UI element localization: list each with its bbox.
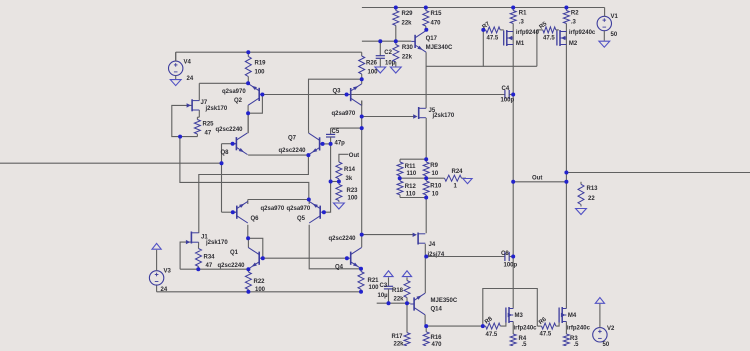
wire Out net stub — [339, 154, 349, 160]
label J1 — [201, 235, 228, 247]
resistor R5 — [537, 27, 556, 33]
svg-text:100p: 100p — [504, 263, 518, 269]
svg-text:C3: C3 — [380, 283, 388, 289]
svg-text:irfp9240: irfp9240 — [516, 30, 540, 36]
label R23 — [347, 188, 359, 202]
ground V1 — [599, 41, 610, 47]
label R26 — [366, 61, 378, 76]
svg-text:J4: J4 — [429, 242, 436, 248]
label R21 — [368, 278, 380, 291]
wire J5 gate — [362, 116, 415, 118]
wire Out rail — [513, 181, 566, 183]
svg-text:Q1: Q1 — [230, 250, 239, 256]
net label Out stub — [349, 153, 359, 159]
wire input net — [0, 144, 222, 213]
svg-text:M4: M4 — [568, 313, 577, 319]
svg-text:24: 24 — [161, 287, 168, 293]
voltage source V3 — [149, 250, 163, 285]
label R2 — [571, 11, 579, 26]
capacitor C2 — [376, 41, 385, 66]
resistor R8 — [483, 323, 501, 329]
label R18 — [392, 288, 404, 303]
transistor Q1 — [248, 247, 263, 269]
wire top positive rail — [362, 7, 605, 9]
label V4 — [184, 60, 194, 83]
wire V4 rail — [176, 52, 362, 61]
svg-text:100p: 100p — [501, 98, 515, 104]
transistor Q3 — [347, 79, 362, 105]
label Q2 — [222, 89, 246, 104]
svg-text:110: 110 — [406, 192, 416, 198]
transistor Q17 — [411, 30, 426, 52]
jfet J7 — [187, 99, 200, 111]
power flag V3 — [152, 243, 161, 249]
power flag R18 — [402, 271, 411, 277]
label R19 — [255, 61, 267, 76]
label Q4 — [329, 236, 357, 271]
svg-text:470: 470 — [431, 21, 442, 27]
label C5 — [332, 129, 346, 147]
label R12 — [405, 184, 417, 198]
svg-text:R9: R9 — [430, 163, 438, 169]
wire R5 to M2 gate — [556, 29, 559, 31]
label Q7 — [279, 136, 307, 155]
svg-text:q2sc2240: q2sc2240 — [216, 127, 244, 133]
resistor R16 — [423, 326, 429, 346]
svg-text:irfp9240c: irfp9240c — [569, 30, 596, 36]
svg-text:110: 110 — [407, 171, 417, 177]
svg-text:Q5: Q5 — [297, 216, 306, 222]
label M2 — [569, 30, 596, 47]
resistor R12 — [397, 178, 403, 197]
svg-text:100: 100 — [348, 196, 359, 202]
resistor R11 — [397, 159, 403, 178]
svg-text:j2sk170: j2sk170 — [205, 106, 228, 112]
svg-text:M2: M2 — [569, 41, 578, 47]
resistor R25 — [194, 117, 200, 136]
label R11 — [405, 164, 417, 177]
label V3 — [161, 269, 172, 294]
wire Q2 base collector tie — [248, 95, 262, 114]
wire negative rail V3 — [157, 285, 361, 292]
svg-text:100: 100 — [255, 70, 266, 76]
svg-text:irfp240c: irfp240c — [567, 326, 591, 332]
wire R8 to M3 gate — [500, 323, 506, 327]
power flag C3 — [384, 271, 393, 277]
resistor R7 — [483, 27, 500, 33]
ground V4 — [170, 80, 181, 86]
svg-text:C2: C2 — [384, 50, 392, 56]
svg-text:q2sa970: q2sa970 — [222, 89, 246, 95]
svg-text:C8: C8 — [501, 251, 509, 257]
wire diff pair emitters — [248, 200, 309, 205]
svg-text:Q6: Q6 — [251, 216, 260, 222]
resistor R9 — [423, 159, 429, 178]
resistor R26 — [359, 52, 365, 79]
label R9 — [430, 163, 439, 177]
svg-text:R19: R19 — [255, 61, 267, 67]
svg-text:22k: 22k — [394, 342, 405, 347]
capacitor C4 — [505, 90, 513, 99]
svg-text:R34: R34 — [204, 255, 216, 261]
wire J1 source lead — [198, 242, 200, 245]
svg-text:R11: R11 — [405, 164, 416, 170]
svg-text:Q3: Q3 — [333, 89, 342, 95]
svg-text:V4: V4 — [184, 60, 192, 66]
wire resistor block mid — [400, 177, 444, 179]
svg-text:Out: Out — [532, 176, 542, 182]
wire Q8 base — [222, 143, 237, 145]
power flag V2 — [595, 298, 604, 304]
resistor R21 — [358, 269, 364, 292]
svg-text:10: 10 — [432, 171, 439, 177]
svg-text:100: 100 — [255, 287, 266, 293]
svg-text:q2sc2240: q2sc2240 — [218, 263, 246, 269]
svg-text:irfp240c: irfp240c — [514, 326, 538, 332]
svg-text:47: 47 — [206, 263, 213, 269]
svg-text:47.5: 47.5 — [486, 332, 498, 338]
ground C2 — [375, 67, 386, 73]
wire J7 source lead — [197, 110, 199, 117]
wire Q1 base to Q4 base — [263, 257, 347, 259]
resistor R1 — [510, 8, 516, 27]
svg-text:.3: .3 — [519, 20, 525, 26]
svg-text:R2: R2 — [571, 11, 579, 17]
svg-text:j2sj74: j2sj74 — [427, 252, 445, 258]
label Q3 — [332, 89, 356, 118]
label R29 — [402, 11, 414, 27]
label R30 — [402, 45, 414, 61]
mosfet M4 — [559, 307, 566, 323]
jfet J4 — [413, 233, 426, 245]
transistor Q5 — [309, 201, 324, 223]
wire Out to edge — [566, 172, 750, 174]
label R16 — [431, 335, 443, 348]
label Q17 — [426, 36, 453, 51]
wire M2 output vertical — [565, 26, 567, 173]
svg-text:R29: R29 — [402, 11, 414, 17]
svg-text:j2sk170: j2sk170 — [432, 113, 455, 119]
resistor R22 — [245, 269, 251, 292]
ground R13 — [576, 209, 587, 215]
svg-text:R17: R17 — [392, 334, 404, 340]
resistor R19 — [245, 52, 251, 83]
svg-text:Q2: Q2 — [234, 98, 243, 104]
label R6 — [538, 316, 552, 337]
label R5 — [539, 21, 556, 42]
resistor R6 — [537, 323, 556, 329]
resistor R13 — [578, 182, 584, 207]
transistor Q6 — [233, 201, 248, 223]
wire Q8 emitter to Q7 emitter — [248, 154, 308, 156]
label Q8 — [216, 127, 244, 156]
resistor R34 — [196, 245, 202, 269]
svg-text:100: 100 — [369, 285, 380, 291]
label R10 — [430, 184, 442, 198]
wire resistor block bottom — [400, 197, 426, 199]
jfet J1 — [186, 232, 199, 245]
resistor R29 — [393, 8, 399, 42]
svg-text:q2sa970: q2sa970 — [332, 111, 356, 117]
wire Q7 base — [320, 143, 331, 145]
label R14 — [344, 167, 356, 182]
wire J4 source to Q14 emitter — [424, 244, 426, 293]
label Q1 — [218, 250, 246, 269]
wire Q3 collector vertical — [361, 101, 363, 248]
svg-text:.5: .5 — [522, 342, 528, 346]
label V2 — [603, 326, 616, 348]
svg-text:MJE340C: MJE340C — [426, 45, 453, 51]
label R1 — [519, 11, 527, 26]
resistor R18 — [404, 277, 410, 303]
label M3 — [514, 313, 538, 332]
svg-text:22k: 22k — [394, 297, 405, 303]
mosfet M3 — [506, 307, 513, 323]
wire M4 drain vertical — [565, 173, 567, 309]
voltage source V2 — [593, 304, 607, 342]
svg-text:10: 10 — [432, 192, 439, 198]
wire Q5 collector to R21 top — [309, 225, 361, 269]
svg-text:47.5: 47.5 — [487, 36, 499, 42]
svg-text:R16: R16 — [431, 335, 443, 341]
label C3 — [378, 283, 389, 299]
label R4 — [519, 336, 528, 348]
resistor R17 — [404, 303, 410, 346]
capacitor C8 — [426, 252, 513, 261]
mosfet M2 — [557, 30, 567, 46]
label C4 — [501, 86, 515, 104]
wire Q6 collector to Q1 collector — [248, 225, 263, 258]
wire M3 source to R4 — [512, 322, 514, 335]
ground R30 — [390, 67, 401, 73]
svg-text:47.5: 47.5 — [540, 332, 552, 338]
resistor R14 — [336, 161, 342, 182]
label R24 — [452, 169, 464, 190]
ground R23 — [334, 203, 345, 209]
label R3 — [570, 336, 579, 348]
voltage source V4 — [169, 52, 183, 79]
wire M4 source to R3 — [565, 322, 567, 335]
wire J7 gate loop — [172, 105, 198, 136]
svg-text:Q17: Q17 — [426, 36, 438, 42]
label R17 — [392, 334, 405, 348]
svg-text:Q8: Q8 — [221, 150, 230, 156]
svg-text:Q4: Q4 — [335, 265, 344, 271]
svg-text:470: 470 — [432, 342, 443, 346]
transistor Q8 — [233, 113, 249, 155]
resistor R24 — [444, 175, 467, 181]
svg-text:V3: V3 — [164, 269, 172, 275]
svg-text:q2sc2240: q2sc2240 — [279, 148, 307, 154]
wire M1 output vertical — [512, 26, 514, 309]
voltage source V1 — [597, 8, 611, 41]
svg-text:3k: 3k — [346, 176, 353, 182]
wire feedback node vertical — [324, 144, 331, 212]
svg-text:R12: R12 — [405, 184, 417, 190]
svg-text:MJE350C: MJE350C — [431, 298, 458, 304]
label Q5 — [287, 206, 311, 222]
svg-text:R21: R21 — [368, 278, 380, 284]
ground R24 — [463, 179, 472, 184]
wire R34 bottom to Q1 emitter — [180, 268, 248, 270]
svg-text:100: 100 — [368, 70, 379, 76]
label R25 — [203, 122, 215, 137]
wire C5 top tap — [331, 127, 362, 129]
wire R26 bottom to Q7 collector — [309, 79, 362, 130]
svg-text:R15: R15 — [431, 11, 443, 17]
svg-text:R24: R24 — [452, 169, 464, 175]
wire J5 source down — [425, 118, 427, 159]
wire R6 to M4 gate — [556, 323, 559, 327]
resistor R2 — [563, 8, 569, 27]
svg-text:24: 24 — [187, 76, 194, 82]
svg-text:R22: R22 — [254, 279, 266, 285]
svg-text:q2sa970: q2sa970 — [287, 206, 311, 212]
svg-text:j2sk170: j2sk170 — [205, 240, 228, 246]
svg-text:C5: C5 — [332, 129, 340, 135]
svg-text:Out: Out — [349, 153, 359, 159]
svg-text:R14: R14 — [344, 167, 356, 173]
svg-text:47.5: 47.5 — [543, 36, 555, 42]
svg-text:M1: M1 — [516, 41, 525, 47]
resistor R4 — [510, 334, 516, 346]
wire gate bias bus M1 M2 — [426, 30, 537, 66]
label J7 — [201, 100, 228, 112]
transistor Q4 — [347, 247, 362, 269]
label J5 — [429, 108, 455, 119]
wire Q14 collector — [425, 315, 483, 326]
wire J4 drain up — [425, 198, 427, 234]
label R15 — [431, 11, 443, 27]
wire R7 to M1 gate — [500, 29, 504, 31]
label V1 — [611, 14, 619, 38]
svg-text:22k: 22k — [402, 55, 413, 61]
svg-text:V1: V1 — [611, 14, 619, 20]
wire Q17 base bus — [362, 40, 411, 42]
svg-text:R30: R30 — [402, 45, 414, 51]
svg-text:R13: R13 — [587, 186, 599, 192]
svg-text:22: 22 — [588, 196, 595, 202]
label C8 — [501, 251, 518, 269]
svg-text:.3: .3 — [571, 20, 577, 26]
svg-text:R10: R10 — [430, 184, 442, 190]
svg-text:q2sc2240: q2sc2240 — [329, 236, 357, 242]
svg-text:22k: 22k — [402, 21, 413, 27]
svg-text:50: 50 — [603, 342, 610, 346]
svg-text:Q7: Q7 — [288, 136, 297, 142]
label J4 — [427, 242, 445, 258]
label M4 — [567, 313, 591, 332]
wire Q14 base bus — [377, 302, 411, 304]
capacitor C5 — [326, 128, 335, 144]
transistor Q2 — [248, 84, 263, 106]
wire Q6 base — [222, 211, 237, 213]
svg-text:R25: R25 — [203, 122, 215, 128]
wire Q7 emitter to J1 drain — [199, 155, 309, 233]
label C2 — [384, 50, 395, 67]
label R22 — [254, 279, 266, 293]
wire Q2 base bus to C4 — [262, 94, 505, 96]
transistor Q7 — [309, 131, 324, 155]
wire M3 M4 gate box — [483, 289, 538, 327]
label M1 — [516, 30, 540, 47]
wire Q2 collector down to Q8 collector — [247, 105, 249, 133]
label Q14 — [431, 298, 458, 313]
resistor R10 — [423, 178, 429, 197]
svg-text:R23: R23 — [347, 188, 359, 194]
svg-text:M3: M3 — [515, 313, 524, 319]
svg-text:47: 47 — [205, 131, 212, 137]
label R34 — [204, 255, 216, 270]
svg-text:R26: R26 — [366, 61, 378, 67]
svg-text:Q14: Q14 — [431, 307, 443, 313]
resistor R23 — [336, 182, 342, 203]
wire J1 gate loop — [180, 242, 191, 269]
capacitor C3 — [384, 277, 393, 303]
resistor R30 — [393, 41, 399, 66]
svg-text:.5: .5 — [574, 342, 580, 346]
svg-text:V2: V2 — [607, 326, 615, 332]
label R13 — [587, 186, 599, 202]
label R7 — [482, 21, 499, 42]
mosfet M1 — [504, 30, 514, 46]
wire J4 gate — [362, 234, 415, 236]
svg-text:R1: R1 — [519, 11, 527, 17]
svg-text:C4: C4 — [502, 86, 510, 92]
label Q6 — [251, 206, 285, 222]
wire feedback tail — [180, 137, 309, 200]
label R8 — [484, 316, 498, 338]
svg-text:50: 50 — [611, 32, 618, 38]
wire resistor block top — [400, 158, 426, 160]
svg-text:47p: 47p — [335, 141, 346, 147]
resistor R3 — [563, 334, 569, 346]
jfet J5 — [413, 107, 426, 119]
transistor Q14 — [410, 293, 425, 315]
wire J7 drain to R19 bottom — [199, 83, 248, 100]
resistor R15 — [423, 8, 429, 30]
net label Out — [532, 176, 542, 182]
wire R14 R23 junction stub — [331, 181, 339, 183]
wire Q17 emitter down to J5 drain — [425, 52, 427, 108]
svg-text:q2sa970: q2sa970 — [261, 206, 285, 212]
svg-text:R18: R18 — [392, 288, 404, 294]
svg-text:10µ: 10µ — [378, 293, 389, 299]
